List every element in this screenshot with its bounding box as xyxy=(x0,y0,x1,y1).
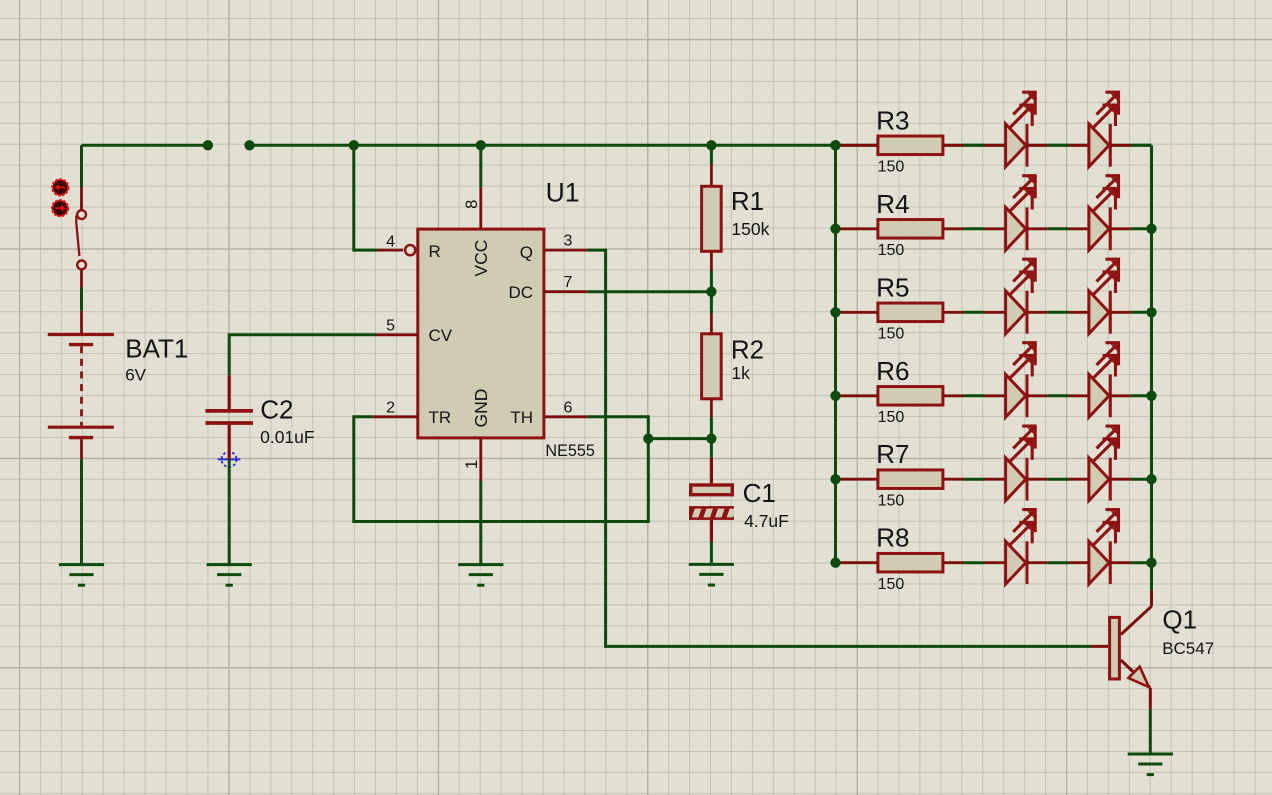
svg-text:C2: C2 xyxy=(260,395,293,425)
svg-text:TR: TR xyxy=(429,408,452,427)
svg-text:R7: R7 xyxy=(876,439,909,469)
value 150 (R7) xyxy=(878,492,905,509)
U1 pin name R xyxy=(429,242,441,261)
svg-text:U1: U1 xyxy=(546,178,580,208)
LED D2 xyxy=(1069,92,1131,167)
svg-text:4: 4 xyxy=(386,234,395,251)
U1 pin name DC xyxy=(508,283,533,302)
resistor R1 xyxy=(702,145,722,291)
ground (Q1) xyxy=(1128,754,1173,775)
U1 pin 4 number xyxy=(386,234,395,251)
wire LED cathode rail (right) xyxy=(1150,145,1153,591)
U1 pin 8 number xyxy=(463,200,481,209)
resistor R4 xyxy=(836,220,964,239)
svg-text:6V: 6V xyxy=(125,365,146,384)
resistor R5 xyxy=(836,303,964,322)
wire CV net to C2 xyxy=(229,335,376,376)
svg-text:1k: 1k xyxy=(731,363,750,383)
wire xyxy=(964,561,985,564)
label R3 xyxy=(876,105,909,135)
value 6V xyxy=(125,365,146,384)
LED D1 xyxy=(984,92,1047,167)
switch actuator button down xyxy=(52,200,68,216)
label R6 xyxy=(876,356,909,386)
wire xyxy=(1131,144,1152,147)
wire xyxy=(964,227,985,230)
label Q1 xyxy=(1162,605,1197,635)
wire xyxy=(964,478,985,481)
U1 pin 2 number xyxy=(386,399,395,416)
wire LED resistor rail (left) xyxy=(834,145,837,562)
ground (C1) xyxy=(689,564,734,585)
svg-text:BC547: BC547 xyxy=(1162,639,1214,658)
LED D12 xyxy=(1069,510,1131,584)
label R4 xyxy=(876,189,909,219)
label C2 xyxy=(260,395,293,425)
svg-text:BAT1: BAT1 xyxy=(125,333,188,363)
wire xyxy=(1131,394,1152,397)
value 150 (R4) xyxy=(878,242,905,259)
node DC/R1/R2 junction xyxy=(706,287,716,297)
svg-text:VCC: VCC xyxy=(471,240,491,277)
wire xyxy=(964,311,985,314)
svg-text:R6: R6 xyxy=(876,356,909,386)
svg-text:3: 3 xyxy=(564,233,573,250)
LED D10 xyxy=(1069,426,1131,501)
value 150 (R8) xyxy=(878,576,905,593)
resistor R7 xyxy=(836,470,964,489)
wire switch to battery xyxy=(80,288,83,311)
wire xyxy=(964,394,985,397)
svg-text:150: 150 xyxy=(878,242,905,259)
U1 pin 8 VCC stub xyxy=(479,145,482,229)
svg-text:NE555: NE555 xyxy=(545,442,595,460)
switch SW1 xyxy=(76,187,86,288)
svg-text:150: 150 xyxy=(878,159,905,176)
U1 pin 1 GND stub xyxy=(479,438,482,481)
U1 pin 4 R stub with bubble xyxy=(354,145,416,255)
svg-text:Q1: Q1 xyxy=(1162,605,1197,635)
value NE555 xyxy=(545,442,595,460)
U1 pin 6 TH stub xyxy=(544,415,588,418)
LED D8 xyxy=(1069,343,1131,418)
wire xyxy=(1047,311,1068,314)
wire xyxy=(1047,227,1068,230)
svg-text:Q: Q xyxy=(520,243,533,262)
resistor R2 xyxy=(702,292,722,439)
U1 pin name Q xyxy=(520,243,533,262)
svg-text:R5: R5 xyxy=(876,272,909,302)
LED D9 xyxy=(984,426,1047,501)
wire rail down to switch/battery xyxy=(80,145,83,187)
LED D7 xyxy=(984,343,1047,418)
svg-text:R3: R3 xyxy=(876,105,909,135)
U1 pin name VCC (rotated) xyxy=(471,240,491,277)
capacitor C2 xyxy=(205,375,253,459)
wire xyxy=(1047,144,1068,147)
wire xyxy=(1047,561,1068,564)
U1 pin 7 number xyxy=(564,274,573,291)
svg-text:7: 7 xyxy=(564,274,573,291)
capacitor C1 (polarized) xyxy=(689,439,736,542)
svg-text:150: 150 xyxy=(878,326,905,343)
label R1 xyxy=(731,186,764,216)
wire C2 to ground xyxy=(228,459,231,564)
ground (U1 pin 1) xyxy=(458,565,503,586)
svg-text:R2: R2 xyxy=(731,334,764,364)
svg-text:150: 150 xyxy=(878,492,905,509)
transistor Q1 xyxy=(1091,591,1152,710)
label U1 xyxy=(546,178,580,208)
node rail junction R3 xyxy=(830,140,840,150)
U1 pin name TH xyxy=(510,408,533,427)
svg-text:R4: R4 xyxy=(876,189,909,219)
svg-text:2: 2 xyxy=(386,399,395,416)
LED D4 xyxy=(1069,176,1131,251)
wire TR net (pin2 loop to TH node) xyxy=(354,417,649,522)
junction dots on power rail xyxy=(203,140,841,150)
wire xyxy=(1131,478,1152,481)
label BAT1 xyxy=(125,333,188,363)
value 1k xyxy=(731,363,750,383)
LED D6 xyxy=(1069,259,1131,334)
node R2/C1 junction xyxy=(706,433,716,443)
origin marker (blue) xyxy=(218,448,241,471)
switch actuator button up xyxy=(52,180,68,196)
svg-text:R: R xyxy=(429,242,441,261)
svg-text:4.7uF: 4.7uF xyxy=(744,511,789,531)
svg-text:C1: C1 xyxy=(743,478,776,508)
U1 pin 2 TR stub xyxy=(372,415,417,418)
svg-text:0.01uF: 0.01uF xyxy=(260,427,314,447)
svg-text:150k: 150k xyxy=(731,219,769,239)
svg-text:8: 8 xyxy=(463,200,481,209)
value 0.01uF xyxy=(260,427,314,447)
node rail junction R5 xyxy=(830,307,1156,317)
wire xyxy=(1131,561,1152,564)
node rail junction R6 xyxy=(830,391,1156,401)
node rail junction R4 xyxy=(830,224,1156,234)
U1 pin 5 CV stub xyxy=(376,333,418,336)
svg-text:150: 150 xyxy=(878,576,905,593)
wire TH net (pin6 to node) xyxy=(587,417,648,439)
svg-text:5: 5 xyxy=(386,317,395,334)
wire xyxy=(1131,311,1152,314)
value BC547 xyxy=(1162,639,1214,658)
U1 pin 1 number xyxy=(463,460,481,469)
wire xyxy=(1047,394,1068,397)
wire DC net (pin7 to R1/R2 node) xyxy=(587,290,711,293)
value 150 (R3) xyxy=(878,159,905,176)
LED D5 xyxy=(984,259,1047,334)
wire xyxy=(1131,227,1152,230)
U1 pin 3 Q stub xyxy=(544,249,588,252)
label R8 xyxy=(876,523,909,553)
U1 pin name CV xyxy=(429,326,453,345)
op-amp/timer U1 NE555 body xyxy=(418,229,544,438)
wire Q output net (pin3 to Q1 base) xyxy=(587,250,1091,646)
U1 pin 3 number xyxy=(564,233,573,250)
wire xyxy=(964,144,985,147)
node rail junction R7 xyxy=(830,474,1156,484)
svg-text:6: 6 xyxy=(564,399,573,416)
svg-text:R1: R1 xyxy=(731,186,764,216)
U1 pin 5 number xyxy=(386,317,395,334)
label C1 xyxy=(743,478,776,508)
svg-text:GND: GND xyxy=(471,389,491,428)
battery BAT1 xyxy=(48,311,114,460)
U1 pin name GND (rotated) xyxy=(471,389,491,428)
resistor R8 xyxy=(836,553,964,572)
svg-text:DC: DC xyxy=(508,283,533,302)
svg-text:150: 150 xyxy=(878,409,905,426)
wire battery to ground xyxy=(80,460,83,565)
value 4.7uF xyxy=(744,511,789,531)
LED D3 xyxy=(984,176,1047,251)
node rail junction R8 xyxy=(830,558,1156,568)
U1 pin name TR xyxy=(429,408,452,427)
svg-text:CV: CV xyxy=(429,326,453,345)
svg-text:R8: R8 xyxy=(876,523,909,553)
wire TH node to R2/C1 node xyxy=(648,437,711,440)
wire U1 pin1 to ground xyxy=(479,481,482,565)
wire C1 to ground xyxy=(710,542,713,565)
node TH junction xyxy=(643,433,653,443)
label R2 xyxy=(731,334,764,364)
value 150 (R5) xyxy=(878,326,905,343)
ground (C2) xyxy=(207,565,252,586)
svg-text:TH: TH xyxy=(510,408,533,427)
value 150 (R6) xyxy=(878,409,905,426)
power rail top wire xyxy=(82,144,1152,147)
resistor R3 xyxy=(836,136,964,155)
label R5 xyxy=(876,272,909,302)
U1 pin 7 DC stub xyxy=(544,290,588,293)
svg-text:1: 1 xyxy=(463,460,481,469)
wire xyxy=(1047,478,1068,481)
label R7 xyxy=(876,439,909,469)
LED D11 xyxy=(984,510,1047,584)
wire Q1 emitter to ground xyxy=(1149,709,1152,754)
resistor R6 xyxy=(836,387,964,406)
value 150k xyxy=(731,219,769,239)
U1 pin 6 number xyxy=(564,399,573,416)
ground (battery) xyxy=(59,565,104,586)
